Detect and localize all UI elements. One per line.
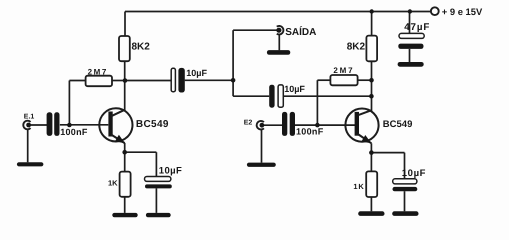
svg-text:100nF: 100nF: [60, 127, 88, 137]
svg-text:1K: 1K: [353, 182, 364, 191]
svg-text:+ 9 e 15V: + 9 e 15V: [442, 6, 483, 17]
svg-text:10µF: 10µF: [186, 68, 207, 78]
svg-text:8K2: 8K2: [347, 41, 366, 52]
svg-text:8K2: 8K2: [132, 41, 151, 52]
svg-text:2M7: 2M7: [88, 67, 108, 76]
svg-text:E2: E2: [244, 120, 253, 127]
svg-text:BC549: BC549: [383, 119, 413, 130]
svg-text:10µF: 10µF: [159, 166, 182, 177]
svg-text:1K: 1K: [108, 179, 118, 188]
svg-text:BC549: BC549: [136, 119, 169, 130]
svg-text:2M7: 2M7: [333, 66, 354, 75]
svg-text:E.1: E.1: [24, 113, 35, 120]
svg-text:SAÍDA: SAÍDA: [285, 26, 316, 38]
svg-text:10µF: 10µF: [284, 84, 305, 94]
svg-text:47µF: 47µF: [404, 22, 430, 33]
svg-text:10µF: 10µF: [402, 168, 426, 179]
svg-text:100nF: 100nF: [296, 126, 324, 136]
